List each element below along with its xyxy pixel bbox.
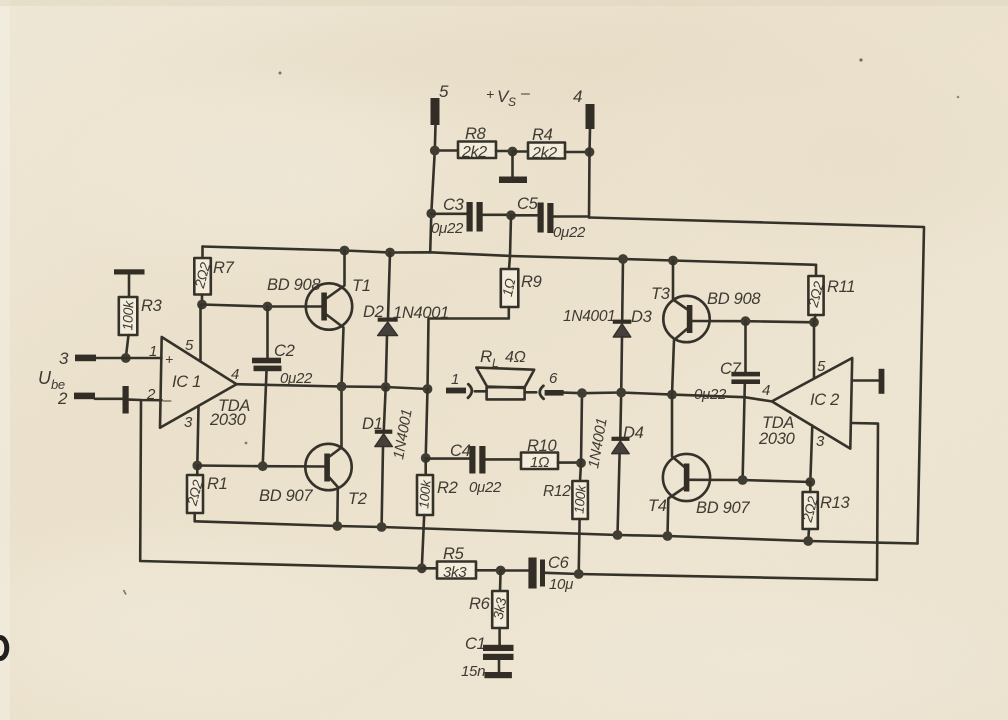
ground above R3: [114, 269, 145, 297]
resistor R8: [435, 142, 513, 159]
resistor R1: [187, 466, 203, 522]
resistor R6: [492, 571, 508, 646]
svg-text:4: 4: [762, 382, 770, 399]
label +Vs-: [486, 85, 530, 109]
svg-text:5: 5: [817, 358, 826, 375]
svg-text:5: 5: [439, 82, 449, 101]
node C2 top: [263, 302, 273, 312]
node output R12: [577, 388, 587, 398]
resistor R5: [422, 562, 501, 579]
node R5/R6/C6: [496, 566, 506, 576]
svg-text:T1: T1: [352, 277, 371, 295]
node C7 top: [741, 316, 751, 326]
svg-text:C5: C5: [517, 195, 539, 213]
svg-text:0μ22: 0μ22: [431, 220, 464, 237]
svg-text:D2: D2: [363, 303, 384, 321]
ground between R8 and R4: [499, 152, 527, 183]
node output R9/R2: [423, 384, 433, 394]
wire terminal4 down: [589, 129, 590, 218]
terminal 2: [74, 393, 95, 400]
diode D2: [378, 253, 398, 388]
small speck right: [957, 96, 960, 99]
diode D3: [613, 259, 632, 393]
node D2 top on bus: [385, 248, 395, 258]
svg-text:+: +: [486, 86, 494, 102]
svg-text:15n: 15n: [461, 663, 485, 680]
capacitor C7: [731, 321, 760, 480]
resistor R10: [521, 453, 581, 470]
wire R12 chain vertical: [580, 393, 582, 481]
svg-text:C2: C2: [274, 342, 295, 360]
node C3 left: [426, 209, 436, 219]
node feedback R2: [417, 563, 427, 573]
resistor R7: [194, 258, 211, 305]
wire input pin1: [96, 357, 162, 360]
svg-text:100k: 100k: [571, 483, 589, 514]
svg-text:R2: R2: [437, 479, 458, 497]
wire T4 base line: [689, 480, 810, 482]
wire R9/R2 vertical: [426, 389, 428, 458]
transistor T4: [663, 395, 710, 536]
diode D1: [375, 387, 393, 527]
svg-text:4Ω: 4Ω: [505, 349, 526, 366]
svg-text:3: 3: [816, 433, 825, 450]
wire terminal5 to R8: [433, 125, 436, 151]
node C4 left: [421, 453, 431, 463]
svg-text:T3: T3: [651, 285, 671, 303]
node output D3/D4: [616, 388, 626, 398]
wire IC2 pin1 to ground: [852, 379, 879, 382]
wire bus corner into R7: [201, 247, 204, 259]
svg-text:R13: R13: [820, 494, 850, 512]
svg-text:100k: 100k: [416, 478, 434, 509]
svg-text:BD 907: BD 907: [259, 487, 313, 505]
svg-text:4: 4: [573, 87, 582, 106]
node R4 right: [585, 147, 595, 157]
svg-text:IC 1: IC 1: [172, 373, 201, 391]
transistor T3: [663, 261, 709, 395]
svg-text:C4: C4: [450, 442, 471, 460]
terminal 5: [431, 98, 440, 125]
node output D1/D2: [381, 382, 391, 392]
svg-text:R8: R8: [465, 125, 487, 143]
svg-text:1N4001: 1N4001: [393, 304, 449, 322]
wire output line right: [564, 393, 772, 402]
svg-text:100k: 100k: [119, 300, 136, 331]
svg-text:0μ22: 0μ22: [280, 370, 313, 387]
wire T3 base line: [692, 321, 814, 322]
wire C3/C5 mid down to R9: [509, 215, 511, 269]
small speck mid left: [245, 442, 248, 445]
svg-text:U: U: [38, 368, 52, 388]
resistor R11: [808, 265, 823, 323]
node R10 right: [576, 458, 586, 468]
svg-text:R6: R6: [469, 595, 491, 613]
svg-text:5: 5: [185, 337, 194, 354]
node C2 bottom: [258, 461, 268, 471]
node R13 top: [805, 477, 815, 487]
svg-text:3: 3: [59, 349, 69, 368]
node T2 emitter: [332, 521, 342, 531]
node C7 bottom: [738, 475, 748, 485]
resistor R4: [513, 143, 590, 159]
svg-text:R9: R9: [521, 273, 542, 291]
resistor R3: [119, 297, 138, 358]
node R7 bottom: [197, 300, 207, 310]
svg-text:D1: D1: [362, 415, 383, 433]
node D4 bottom: [613, 530, 623, 540]
svg-text:3: 3: [184, 414, 193, 431]
plug arc right: [540, 386, 544, 399]
node C3/C5 mid: [506, 210, 516, 220]
svg-text:R5: R5: [443, 545, 465, 563]
svg-text:2030: 2030: [209, 411, 247, 429]
op-amp IC1: [160, 337, 237, 466]
resistor R9: [428, 269, 519, 389]
svg-text:–: –: [520, 85, 530, 102]
ground below C1: [484, 672, 512, 678]
svg-text:R10: R10: [527, 437, 557, 455]
label Ube: [38, 368, 65, 392]
svg-text:R3: R3: [141, 297, 163, 315]
svg-text:4: 4: [231, 366, 239, 383]
node R11 bottom: [809, 317, 819, 327]
svg-text:C3: C3: [443, 196, 465, 214]
speaker terminal 6: [545, 390, 564, 396]
svg-text:2: 2: [57, 389, 68, 408]
plug arc left: [468, 384, 472, 398]
label RL 4ohm: [480, 347, 526, 370]
svg-text:6: 6: [549, 370, 558, 387]
transistor T1: [306, 251, 352, 387]
ground at IC2 pin1: [879, 369, 885, 394]
svg-text:D4: D4: [623, 424, 644, 442]
svg-text:BD 908: BD 908: [267, 276, 321, 294]
speaker terminal 1: [446, 388, 466, 394]
edge ink blob bottom-left: [0, 638, 7, 659]
svg-text:2030: 2030: [758, 430, 796, 448]
capacitor C6: [501, 558, 579, 589]
node T3 collector on bus: [668, 256, 678, 266]
svg-text:C6: C6: [548, 554, 570, 572]
svg-text:3k3: 3k3: [443, 564, 467, 581]
svg-text:C7: C7: [720, 360, 742, 378]
small tick lower left: [124, 590, 127, 595]
svg-text:1Ω: 1Ω: [530, 454, 549, 471]
capacitor C1: [483, 645, 514, 672]
svg-text:2k2: 2k2: [461, 144, 487, 161]
wire input pin2: [95, 399, 162, 400]
transistor T2: [305, 387, 351, 527]
diode D4: [612, 393, 630, 536]
svg-text:IC 2: IC 2: [810, 391, 839, 409]
node T4 emitter: [663, 531, 673, 541]
wire IC1 pin5: [199, 305, 202, 360]
svg-text:S: S: [508, 95, 516, 109]
svg-text:0μ22: 0μ22: [553, 224, 586, 241]
svg-text:+: +: [165, 351, 173, 367]
svg-text:1: 1: [451, 371, 459, 388]
loudspeaker RL: [475, 368, 537, 400]
node R13 bottom: [803, 536, 813, 546]
node R8 left dot: [430, 146, 440, 156]
node D1 bottom: [377, 522, 387, 532]
node C6 right: [574, 569, 584, 579]
svg-text:C1: C1: [465, 635, 486, 653]
svg-text:2k2: 2k2: [531, 145, 557, 162]
svg-text:R: R: [480, 347, 492, 366]
svg-text:1N4001: 1N4001: [563, 308, 616, 325]
svg-text:R7: R7: [213, 259, 235, 277]
svg-text:T2: T2: [348, 490, 367, 508]
small speck upper left: [279, 72, 282, 75]
op-amp IC2: [772, 358, 852, 482]
wire term5 down to C3 and bus: [430, 151, 435, 253]
node R1 top / pin3: [192, 461, 202, 471]
wire T1 base line: [202, 305, 322, 307]
wire IC2 pin2 feedback: [579, 423, 878, 580]
svg-text:R11: R11: [827, 278, 855, 296]
svg-text:0μ22: 0μ22: [694, 386, 727, 403]
svg-text:R12: R12: [543, 483, 571, 500]
svg-text:BD 907: BD 907: [696, 499, 750, 517]
svg-text:T4: T4: [648, 497, 667, 515]
svg-text:L: L: [492, 356, 498, 370]
node IC1 pin1: [121, 353, 131, 363]
wire main top bus: [203, 247, 817, 265]
node R8/R4 mid: [508, 147, 518, 157]
capacitor C3: [431, 202, 511, 232]
wire T2 base line: [197, 466, 324, 467]
svg-text:2: 2: [146, 386, 156, 403]
node output T3/T4: [667, 390, 677, 400]
svg-text:1: 1: [149, 343, 157, 360]
node D3 top on bus: [618, 254, 628, 264]
svg-text:R4: R4: [532, 126, 553, 144]
terminal 3: [75, 355, 96, 362]
node R8 left: [430, 146, 439, 155]
capacitor C5: [511, 203, 589, 234]
svg-text:–: –: [162, 392, 172, 409]
capacitor C2: [252, 307, 282, 466]
wire IC1 output line: [237, 384, 428, 389]
resistor R2: [417, 458, 433, 568]
svg-text:R1: R1: [207, 475, 228, 493]
small speck top right: [859, 58, 862, 61]
wire IC2 pin5: [813, 322, 816, 378]
resistor R12: [572, 481, 588, 574]
resistor R13: [803, 482, 818, 541]
wire feedback left vertical: [140, 400, 422, 568]
node output T1/T2: [337, 382, 347, 392]
node T1 collector on bus: [340, 246, 350, 256]
wire top-right loop: [589, 218, 924, 544]
input series bar: [123, 386, 129, 414]
terminal 4: [586, 104, 595, 129]
capacitor C4: [426, 446, 521, 474]
svg-text:0μ22: 0μ22: [469, 479, 502, 496]
svg-text:BD 908: BD 908: [707, 290, 761, 308]
svg-text:10μ: 10μ: [549, 576, 573, 593]
wire emitter bottom bus: [195, 521, 918, 543]
svg-text:D3: D3: [631, 308, 653, 326]
